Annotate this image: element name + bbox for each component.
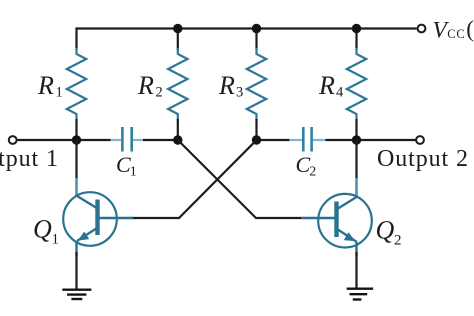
svg-text:2: 2 — [309, 165, 316, 180]
node: junction dot C1/R2 — [173, 135, 182, 144]
node: junction dot rail/R3 — [252, 24, 261, 33]
svg-text:(+: (+ — [466, 17, 474, 42]
svg-text:R: R — [37, 71, 54, 100]
wire: R4 node down to Q2 collector — [355, 140, 357, 197]
svg-text:1: 1 — [56, 85, 63, 101]
svg-text:2: 2 — [394, 233, 402, 249]
node: junction dot output1/R1 — [72, 135, 81, 144]
svg-text:2: 2 — [156, 85, 163, 101]
node: junction dot rail/R4 — [352, 24, 361, 33]
resistor R2 — [168, 48, 187, 121]
svg-text:R: R — [218, 71, 235, 100]
wire: Output 2 lead — [357, 139, 416, 141]
resistor R3 — [247, 48, 266, 121]
svg-text:1: 1 — [52, 232, 60, 248]
resistor R1 — [67, 48, 86, 121]
svg-text:CC: CC — [447, 27, 465, 41]
wire: R3 bottom to node — [255, 119, 257, 140]
svg-text:Output 1: Output 1 — [0, 146, 59, 172]
wire: R3 node to C2 left — [257, 139, 291, 141]
node: junction dot output2/R4 — [352, 135, 361, 144]
ground (Q2) — [347, 289, 374, 300]
wire: C2 right to R4 node — [326, 139, 357, 141]
wire: top supply rail from R1 corner to Vcc terminal — [77, 29, 417, 51]
wire: cross-coupling R2 node to Q2 base — [178, 140, 301, 218]
capacitor C2 — [289, 127, 326, 152]
node: junction dot rail/R2 — [173, 24, 182, 33]
svg-text:C: C — [296, 152, 311, 177]
wire: R2 top stub — [177, 29, 179, 51]
svg-text:R: R — [137, 71, 154, 100]
wire: Q1 emitter to ground — [75, 252, 77, 290]
resistor R4 — [347, 48, 366, 121]
transistor Q1 — [63, 178, 133, 256]
wire: Output 1 lead — [17, 139, 77, 141]
svg-text:1: 1 — [130, 165, 137, 180]
svg-text:Q: Q — [33, 215, 52, 244]
wire: R4 top stub — [355, 29, 357, 51]
terminal: Output 2 open circle — [416, 136, 424, 144]
wire: R2 bottom to node — [177, 119, 179, 140]
svg-text:Q: Q — [376, 216, 395, 245]
capacitor C1 — [111, 127, 144, 152]
svg-text:R: R — [318, 71, 335, 100]
ground (Q1) — [62, 290, 91, 299]
svg-text:3: 3 — [236, 85, 243, 101]
wire: node A to C1 left — [77, 139, 112, 141]
svg-text:4: 4 — [336, 85, 344, 101]
wire: R3 top stub — [255, 29, 257, 51]
svg-text:Output 2: Output 2 — [377, 146, 469, 172]
wire: R4 bottom to output-2 node — [355, 119, 357, 140]
terminal: Vcc open circle — [418, 25, 426, 33]
transistor Q2 — [301, 178, 372, 256]
wire: Q2 emitter to ground — [355, 252, 357, 289]
wire: cross-coupling R3 node to Q1 base — [130, 140, 257, 218]
wire: C1 right to R2 node — [143, 139, 178, 141]
wire: R1 node down to Q1 collector — [75, 140, 77, 196]
wire: R1 bottom to output-1 node — [75, 119, 77, 140]
node: junction dot C2/R3 — [252, 135, 261, 144]
svg-text:C: C — [116, 152, 131, 177]
terminal: Output 1 open circle — [9, 136, 17, 144]
